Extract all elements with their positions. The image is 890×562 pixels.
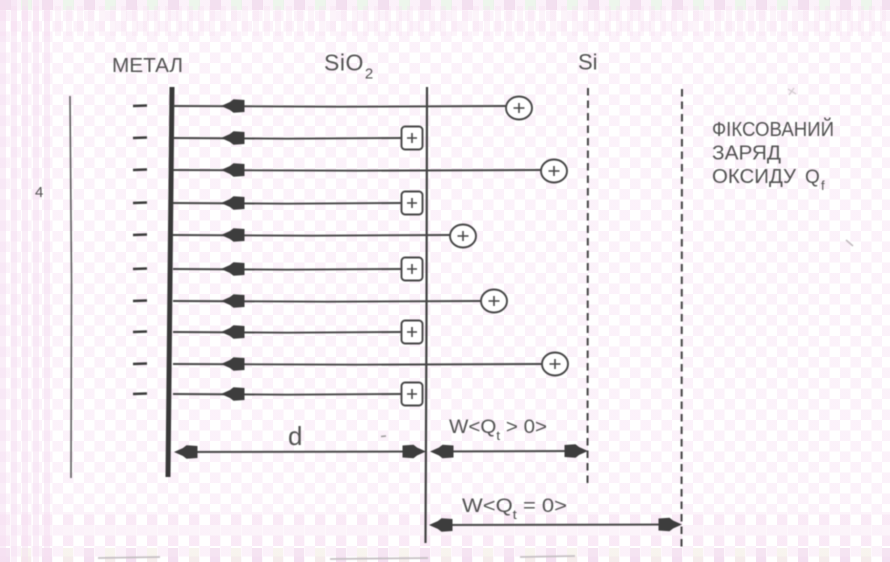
svg-text:SiO2: SiO2 (324, 50, 374, 83)
ionized charge + (circle) row 1 (506, 97, 532, 120)
svg-text:Q: Q (805, 167, 820, 188)
arrowhead row 6 (pointing to metal) (221, 262, 245, 276)
svg-text:Si: Si (578, 50, 598, 75)
dimension line W(Qt>0) (433, 450, 585, 453)
annotation line 3 with Qf (712, 166, 825, 193)
field line wire row 1 (173, 105, 506, 108)
minus charge row 5 (133, 233, 147, 236)
metal electrode thick line (168, 87, 172, 477)
arrowhead row 1 (pointing to metal) (221, 99, 245, 113)
svg-text:f: f (821, 178, 825, 193)
minus charge row 9 (133, 362, 147, 365)
field line wire row 6 (173, 268, 402, 271)
fixed oxide charge + (box) row 2 (402, 127, 423, 150)
fixed oxide charge + (box) row 8 (402, 321, 423, 344)
arrowhead row 10 (pointing to metal) (221, 387, 245, 401)
dimension arrowhead W(Qt=0) right (659, 518, 683, 532)
minus charge row 2 (133, 136, 147, 139)
arrowhead row 9 (pointing to metal) (221, 357, 245, 371)
minus charge row 3 (133, 168, 147, 171)
fixed oxide charge + (box) row 10 (402, 383, 423, 406)
label: Si substrate (578, 50, 598, 75)
field line wire row 10 (173, 393, 402, 396)
minus charge row 10 (133, 392, 147, 395)
dashed boundary line W(Qt=0) (681, 89, 684, 550)
fixed oxide charge + (box) row 4 (402, 192, 423, 215)
label W(Qt>0) (449, 417, 547, 443)
field line wire row 7 (173, 300, 481, 303)
arrowhead row 2 (pointing to metal) (221, 131, 245, 145)
arrowhead row 5 (pointing to metal) (221, 228, 245, 242)
fixed oxide charge + (box) row 6 (402, 258, 423, 281)
annotation line 2 (712, 143, 781, 165)
minus charge row 1 (133, 104, 147, 107)
dimension arrowhead d right (403, 445, 427, 459)
svg-text:d: d (288, 421, 302, 451)
SiO2/Si interface line (426, 87, 428, 543)
label: SiO2 layer (324, 50, 374, 83)
field line wire row 2 (173, 137, 402, 140)
dashed boundary line W(Qt>0) (587, 88, 590, 483)
field line wire row 3 (173, 169, 541, 172)
arrowhead row 7 (pointing to metal) (221, 294, 245, 308)
svg-text:ЗАРЯД: ЗАРЯД (712, 143, 781, 165)
dimension arrowhead W(Qt=0) left (429, 518, 453, 532)
arrowhead row 8 (pointing to metal) (221, 325, 245, 339)
scan speck top right (788, 88, 796, 95)
dimension line W(Qt=0) (433, 524, 679, 527)
svg-text:4: 4 (35, 184, 43, 201)
dimension arrowhead W(Qt>0) right (565, 444, 589, 458)
dimension arrowhead W(Qt>0) left (430, 445, 454, 459)
ionized charge + (circle) row 5 (450, 225, 476, 248)
label: метал (metal) (112, 55, 183, 77)
annotation: fixed oxide charge Qf, line 1 (712, 117, 834, 141)
ionized charge + (circle) row 3 (541, 160, 567, 183)
svg-text:МЕТАЛ: МЕТАЛ (112, 55, 183, 77)
arrowhead row 4 (pointing to metal) (221, 196, 245, 210)
ionized charge + (circle) row 7 (481, 290, 507, 313)
minus charge row 8 (133, 330, 147, 333)
arrowhead row 3 (pointing to metal) (221, 163, 245, 177)
minus charge row 6 (133, 267, 147, 270)
minus charge row 7 (133, 299, 147, 302)
scan smudge bottom left (98, 556, 575, 559)
label W(Qt=0) (462, 496, 567, 522)
field line wire row 9 (173, 363, 542, 366)
field line wire row 8 (173, 331, 402, 334)
left reference line (70, 96, 72, 478)
label d (288, 421, 302, 451)
svg-text:W<Qt > 0>: W<Qt > 0> (449, 417, 547, 443)
figure number 4 (35, 184, 43, 201)
dimension line d (oxide thickness) (178, 451, 424, 454)
svg-text:ФІКСОВАНИЙ: ФІКСОВАНИЙ (712, 117, 834, 141)
svg-text:W<Qt = 0>: W<Qt = 0> (462, 496, 567, 522)
ionized charge + (circle) row 9 (542, 353, 568, 376)
field line wire row 5 (173, 234, 450, 237)
scan speck mid right (846, 240, 853, 246)
field line wire row 4 (173, 202, 402, 205)
scan speck near d label (381, 435, 386, 438)
dimension arrowhead d left (174, 445, 198, 459)
svg-text:ОКСИДУ: ОКСИДУ (712, 166, 796, 188)
minus charge row 4 (133, 201, 147, 204)
